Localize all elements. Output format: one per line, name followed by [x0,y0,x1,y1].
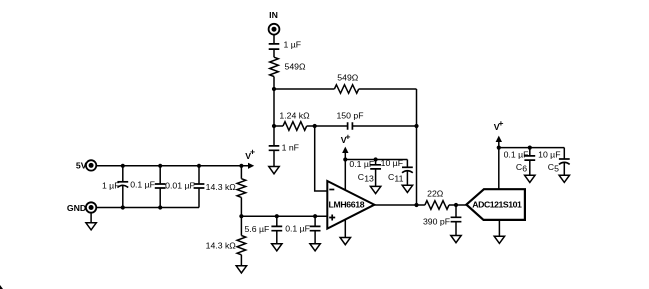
wire 22 ohm to ADC [449,204,466,206]
svg-text:6: 6 [522,164,527,174]
node gnd/0.1uF [158,205,162,209]
svg-text:1.24 kΩ: 1.24 kΩ [279,110,310,120]
svg-text:GND: GND [67,203,86,213]
ground below 0.1uF noninverting [310,244,320,251]
connector IN [269,10,280,34]
wire inverting input [315,126,328,191]
page artifact dot bottom-left [0,285,3,289]
ground below op-amp [340,238,350,245]
svg-text:0.1 µF: 0.1 µF [130,180,155,190]
wire noninverting input rail [241,215,327,217]
capacitor C6 0.1uF [504,148,536,176]
ground below C11 [402,185,412,192]
wire 5V supply rail [96,165,248,167]
capacitor 1 nF [269,143,299,153]
ground below 1nF [269,167,279,174]
node A (input/feedback junction) [272,87,276,91]
svg-text:0.1 µF: 0.1 µF [504,150,529,160]
node supply/divider [239,164,243,168]
node C6 junction [528,146,532,150]
wire divider top stub [240,166,242,179]
wire R549 down to 1nF, through nodes A and B [273,77,275,146]
svg-text:5V: 5V [76,160,87,170]
connector GND [67,202,96,213]
svg-text:22Ω: 22Ω [427,188,444,198]
capacitor C5 10uF (polarized) [538,148,570,176]
svg-text:0.1 µF: 0.1 µF [349,159,374,169]
V+ arrow above ADC [494,118,504,189]
svg-text:LMH6618: LMH6618 [329,200,365,210]
ground below C13 [370,186,380,193]
svg-text:IN: IN [269,10,278,20]
node supply/0.01uF [197,164,201,168]
ground below GND connector [86,223,96,230]
ground below 5.6uF [272,244,282,251]
wire divider middle [240,197,242,235]
node op-amp V+ rail [343,157,347,161]
node supply/0.1uF [158,164,162,168]
svg-text:+: + [250,147,255,157]
svg-text:ADC121S101: ADC121S101 [472,200,522,210]
wire 1nF to ground [273,150,275,166]
svg-text:0.01 µF: 0.01 µF [165,181,195,191]
svg-text:150 pF: 150 pF [336,110,363,120]
svg-text:+: + [345,131,350,141]
capacitor 5.6uF [244,216,282,244]
node C (feedback/150pF junction) [414,124,418,128]
resistor 549 ohm vertical [270,57,306,76]
capacitor C13 0.1uF [349,159,381,186]
node B (gain network junction) [272,124,276,128]
svg-text:14.3 kΩ: 14.3 kΩ [206,241,237,251]
svg-text:14.3 kΩ: 14.3 kΩ [206,182,237,192]
svg-text:5.6 µF: 5.6 µF [244,224,269,234]
wire divider bottom stub [240,255,242,266]
wire op-amp output [374,204,425,206]
connector 5V [76,160,96,170]
node 0.1uF junction [313,214,317,218]
wire op-amp bypass rail [345,159,407,161]
op-amp U1 LMH6618 [327,181,374,229]
svg-text:13: 13 [364,173,374,183]
ground below C6 [525,175,535,182]
wire op-amp negative supply stem [344,219,346,237]
svg-text:C: C [548,162,554,172]
wire ADC ground stem [498,220,500,236]
svg-text:10 µF: 10 µF [381,158,403,168]
ground below 390pF [451,236,461,243]
svg-text:549Ω: 549Ω [285,62,306,72]
capacitor 1uF input [269,40,301,50]
svg-text:1 nF: 1 nF [282,143,299,153]
node 5.6uF junction [275,214,279,218]
V+ arrow above op-amp [341,131,351,190]
wire row1 left segment [274,88,334,90]
V+ arrow at supply rail end [245,147,255,169]
svg-text:549Ω: 549Ω [337,72,358,82]
svg-text:11: 11 [394,173,403,183]
ADC U2 ADC121S101 [466,189,525,220]
resistor 14.3 kohm lower [206,236,246,255]
resistor 1.24 kohm [279,110,310,130]
wire ADC bypass rail [499,147,565,149]
svg-text:390 pF: 390 pF [423,216,450,226]
node ADC V+ rail [497,146,501,150]
wire IN to C-in [273,35,275,44]
node E (divider midpoint) [239,214,243,218]
wire C-in to R549 [273,49,275,57]
resistor 22 ohm [425,188,449,209]
capacitor 390 pF [423,205,461,236]
capacitor 0.1uF bypass [130,166,165,208]
svg-text:1 µF: 1 µF [102,181,120,191]
node 390pF junction [454,203,458,207]
wire 150pF to node C [352,125,416,127]
svg-text:5: 5 [554,164,559,174]
node D (inverting input junction) [313,124,317,128]
capacitor C11 10uF (polarized) [381,158,413,185]
wire GND return rail [96,207,199,209]
wire feedback vertical [416,89,418,205]
resistor R 549 ohm feedback horizontal [334,72,358,93]
svg-text:+: + [498,118,503,128]
capacitor 0.01uF bypass [165,166,204,208]
resistor 14.3 kohm upper [206,179,246,198]
capacitor 0.1uF noninverting [285,216,320,244]
svg-text:C: C [358,172,364,182]
svg-text:10 µF: 10 µF [538,150,560,160]
wire 1.24k to node D [307,125,315,127]
wire row1 right segment [359,88,417,90]
node supply/1uF [121,164,125,168]
wire GND connector stem [90,213,92,223]
capacitor 150 pF [336,110,363,129]
node output/feedback [414,203,418,207]
ground below ADC [494,236,504,243]
node gnd/1uF [121,205,125,209]
svg-text:0.1 µF: 0.1 µF [285,223,310,233]
capacitor 1uF bypass (polarized) [102,166,128,208]
svg-text:1 µF: 1 µF [284,40,302,50]
ground below C5 [559,175,569,182]
svg-text:C: C [388,172,394,182]
svg-text:C: C [516,162,522,172]
wire row2 left stub [274,125,283,127]
wire node D to 150pF [315,125,348,127]
ground below divider [236,266,246,273]
node C13 junction [374,157,378,161]
